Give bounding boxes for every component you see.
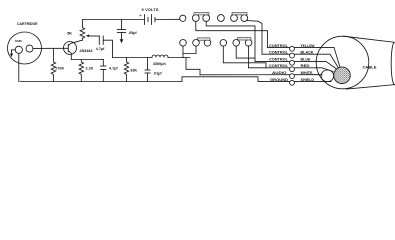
svg-text:33K: 33K xyxy=(130,68,137,72)
svg-text:GROUND: GROUND xyxy=(270,78,288,82)
svg-text:YELLOW: YELLOW xyxy=(301,44,315,48)
svg-text:WHITE: WHITE xyxy=(301,71,313,75)
svg-text:BLACK: BLACK xyxy=(301,51,314,55)
svg-text:SHIELD: SHIELD xyxy=(301,78,315,82)
svg-text:9 VOLTS: 9 VOLTS xyxy=(142,7,159,12)
svg-text:3300μh: 3300μh xyxy=(153,62,166,66)
svg-text:CONTROL: CONTROL xyxy=(269,57,289,61)
svg-text:270K: 270K xyxy=(55,67,64,71)
svg-text:CONTROL: CONTROL xyxy=(269,64,289,68)
svg-text:2N3484: 2N3484 xyxy=(80,49,94,53)
svg-text:4.7μf: 4.7μf xyxy=(109,67,118,71)
svg-text:2.2K: 2.2K xyxy=(86,67,94,71)
svg-text:CONTROL: CONTROL xyxy=(269,44,289,48)
svg-text:AUDIO: AUDIO xyxy=(272,71,287,75)
svg-text:.01μf: .01μf xyxy=(153,71,162,75)
svg-text:5K: 5K xyxy=(67,32,72,36)
svg-text:.05μf: .05μf xyxy=(128,31,137,35)
svg-text:GND: GND xyxy=(15,39,23,43)
svg-text:CABLE: CABLE xyxy=(363,64,377,69)
svg-text:RED: RED xyxy=(301,64,310,68)
svg-text:4.7μf: 4.7μf xyxy=(96,47,105,51)
svg-text:+: + xyxy=(139,13,142,18)
svg-text:BLUE: BLUE xyxy=(301,57,311,61)
svg-text:CONTROL: CONTROL xyxy=(269,51,289,55)
svg-text:CARTRIDGE: CARTRIDGE xyxy=(17,22,38,26)
